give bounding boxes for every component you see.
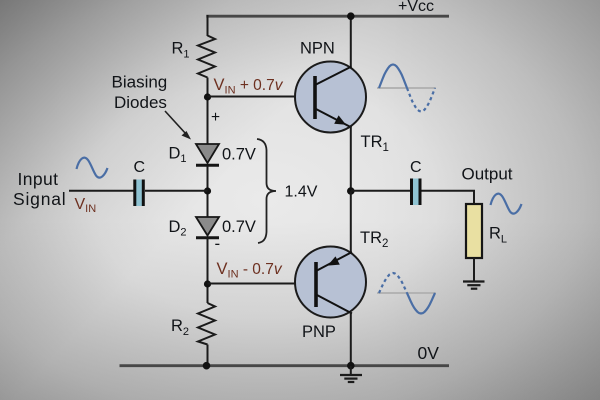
resistor R2	[198, 303, 215, 345]
svg-text:R2: R2	[171, 317, 189, 338]
svg-text:VIN - 0.7v: VIN - 0.7v	[217, 260, 283, 281]
base bar	[313, 76, 317, 119]
svg-text:R1: R1	[172, 40, 190, 61]
node main ground junction dot	[347, 362, 355, 370]
emitter diagonal with arrow	[315, 109, 352, 128]
svg-text:1.4V: 1.4V	[285, 184, 318, 201]
resistor R1	[198, 36, 215, 78]
svg-text:C: C	[410, 159, 422, 176]
wire emitter down to output node	[350, 126, 352, 191]
node input junction dot	[204, 187, 211, 194]
input sine squiggle	[77, 158, 108, 178]
wire R2 bottom to 0V rail	[207, 345, 209, 367]
wire collector from top rail	[350, 16, 352, 67]
collector diagonal	[316, 295, 352, 314]
svg-text:RL: RL	[489, 225, 507, 246]
svg-text:D1: D1	[169, 145, 187, 166]
TR2 output sine (dashed positive, solid negative)	[377, 273, 436, 314]
svg-text:0V: 0V	[418, 343, 440, 363]
wire R1 bottom to node A	[207, 78, 209, 145]
svg-text:VIN + 0.7v: VIN + 0.7v	[214, 76, 284, 97]
svg-text:+: +	[211, 109, 220, 126]
brace 1.4V	[257, 139, 276, 243]
node R2-0V junction dot	[203, 362, 211, 370]
svg-text:Output: Output	[462, 165, 513, 184]
wire D2 to node B	[207, 238, 209, 303]
wire 0V bottom rail	[120, 364, 450, 367]
node top rail junction dot	[347, 12, 355, 20]
label Biasing Diodes	[112, 73, 168, 113]
ground (below RL)	[463, 282, 485, 289]
svg-text:0.7V: 0.7V	[222, 146, 256, 164]
svg-text:D2: D2	[169, 218, 187, 239]
diode D2	[196, 217, 219, 238]
wire NPN base wire	[208, 96, 316, 98]
svg-text:Signal: Signal	[13, 189, 66, 209]
svg-text:+Vcc: +Vcc	[398, 0, 434, 15]
svg-text:0.7V: 0.7V	[222, 218, 256, 236]
wire input lead	[69, 190, 134, 192]
wire emitter from output node down	[350, 191, 352, 253]
ground (main, below 0V rail)	[340, 366, 362, 382]
diode D1	[196, 144, 219, 165]
svg-text:PNP: PNP	[302, 323, 336, 341]
wire cap to input node	[145, 190, 208, 192]
resistor RL (load)	[466, 204, 482, 258]
node output junction dot	[347, 187, 355, 195]
node A junction dot (Vin+0.7v)	[204, 93, 211, 100]
capacitor C (input)	[133, 180, 145, 207]
transistor TR2 (PNP)	[295, 187, 366, 366]
wire left branch: top rail corner down to R1	[207, 15, 209, 36]
arrow from label to D1	[165, 111, 191, 140]
capacitor C (output)	[410, 179, 422, 206]
svg-text:-: -	[215, 234, 221, 253]
svg-text:TR2: TR2	[360, 229, 388, 250]
wire D1 to input node	[207, 166, 209, 217]
transistor TR1 (NPN)	[295, 12, 366, 191]
wire output node to cap	[351, 190, 410, 192]
wire RL to ground	[473, 258, 475, 281]
node B junction dot (Vin-0.7v)	[204, 280, 211, 287]
svg-text:NPN: NPN	[300, 40, 335, 58]
svg-text:Input: Input	[18, 169, 59, 189]
wire collector down to 0V rail	[350, 312, 352, 366]
svg-text:TR1: TR1	[361, 133, 389, 154]
svg-text:Biasing: Biasing	[112, 73, 168, 92]
wire +Vcc top rail	[206, 15, 449, 18]
output sine squiggle	[491, 194, 522, 214]
TR1 output sine (solid positive, dashed negative)	[377, 65, 436, 112]
wire PNP base wire	[208, 283, 317, 285]
wire cap to RL corner	[422, 191, 475, 204]
label Input Signal	[13, 169, 66, 209]
collector diagonal	[315, 67, 352, 86]
base bar	[314, 262, 318, 307]
svg-text:VIN: VIN	[75, 196, 97, 215]
emitter diagonal with inward arrow	[316, 252, 352, 271]
svg-text:C: C	[134, 159, 146, 176]
svg-text:Diodes: Diodes	[114, 93, 167, 112]
